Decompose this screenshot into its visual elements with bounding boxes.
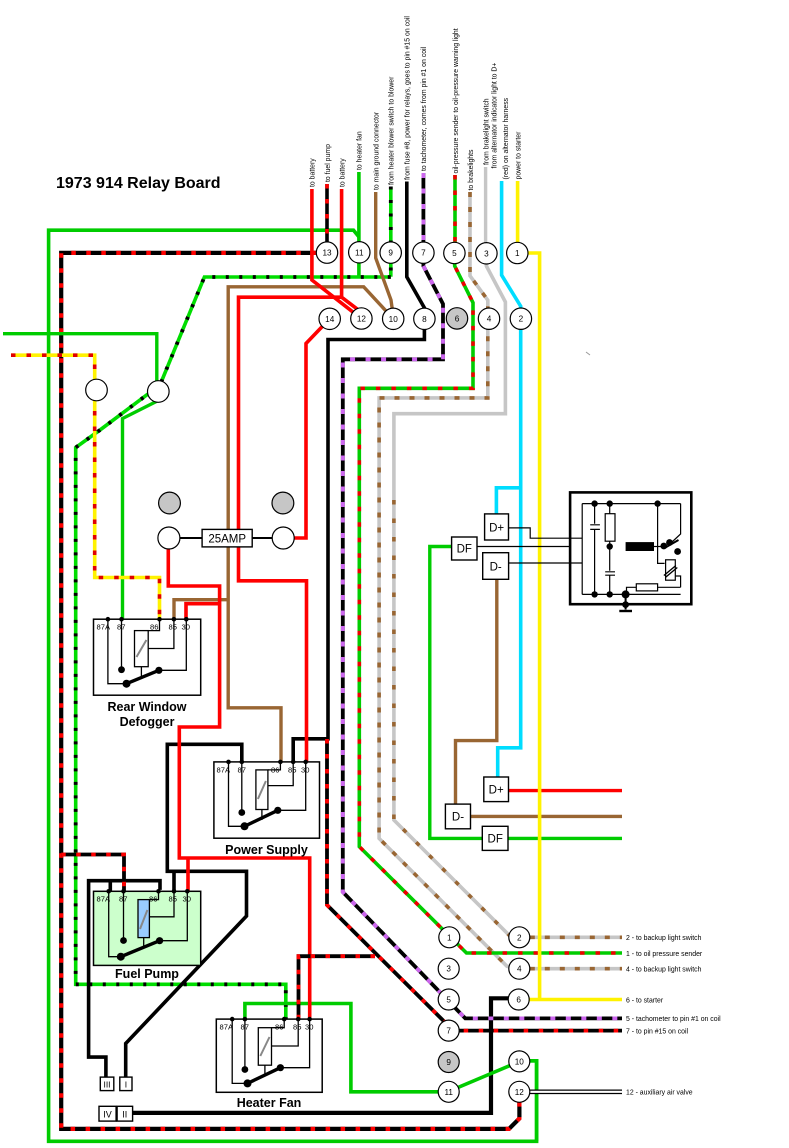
svg-text:2 - to backup light switch: 2 - to backup light switch	[626, 935, 702, 942]
svg-text:Defogger: Defogger	[120, 715, 175, 729]
relay Heater Fan	[216, 1017, 322, 1110]
node bottom pin 11	[438, 1081, 459, 1102]
node bottom pin 6	[508, 989, 529, 1010]
svg-text:8: 8	[422, 315, 427, 324]
node pin 3	[476, 243, 497, 264]
svg-text:86: 86	[149, 895, 157, 904]
node bottom pin 9 gray	[438, 1052, 459, 1073]
node fuse holder circle left	[158, 527, 180, 549]
svg-text:85: 85	[288, 766, 296, 775]
wire black-red striped branch to heater fan pin 85	[299, 956, 376, 1019]
svg-text:D+: D+	[489, 785, 504, 797]
node fuse holder circle right	[272, 527, 294, 549]
svg-text:DF: DF	[488, 834, 503, 846]
svg-text:25AMP: 25AMP	[208, 534, 246, 546]
wire black DF upper stub into alternator mid rail	[477, 546, 626, 548]
wire red fuse right circle up to circle 14	[294, 319, 330, 538]
wire red lower D+ box east to edge	[509, 789, 623, 792]
node bottom pin 10	[509, 1051, 530, 1072]
svg-text:(red) on alternator harness: (red) on alternator harness	[503, 97, 510, 179]
svg-text:12: 12	[357, 315, 367, 324]
svg-text:to battery: to battery	[339, 158, 346, 187]
wire internal left rail	[581, 504, 583, 595]
CIRCLES-START	[86, 242, 532, 1103]
wire green jog circle B to defogger pin 87	[123, 401, 159, 620]
transistor Q1	[666, 560, 676, 580]
resistor R1 vertical	[605, 514, 615, 542]
svg-text:to battery: to battery	[310, 158, 317, 187]
wire red fuse left circle to defogger 30, power supply loop, fuel pump 30 stub, heater fan 30	[168, 548, 309, 1019]
terminal box D- lower	[445, 804, 470, 829]
node bottom pin 2	[509, 927, 530, 948]
svg-text:5: 5	[446, 996, 451, 1005]
relay Rear Window Defogger	[94, 617, 201, 729]
connector plug II	[117, 1106, 133, 1121]
wire yellow-red striped to defogger pin 86	[11, 355, 160, 619]
svg-text:87A: 87A	[220, 1023, 234, 1032]
svg-text:1 - to oil pressure sender: 1 - to oil pressure sender	[626, 951, 703, 958]
node pin 1	[507, 242, 528, 263]
svg-text:87: 87	[117, 623, 125, 632]
node pin 13	[316, 242, 337, 263]
node pin 8	[414, 308, 435, 329]
node bottom pin 7	[438, 1020, 459, 1041]
wire gray from brakelight switch label into top circle 3	[484, 167, 487, 245]
node contact dots	[660, 543, 667, 550]
wire red battery 2 with west branch and drop to power supply pin 30	[239, 189, 359, 762]
svg-text:11: 11	[355, 248, 364, 257]
svg-text:14: 14	[325, 315, 335, 324]
svg-text:9: 9	[388, 249, 393, 258]
svg-text:30: 30	[301, 766, 309, 775]
node bottom pin 5	[438, 989, 459, 1010]
svg-text:Power Supply: Power Supply	[225, 843, 308, 857]
svg-text:4: 4	[487, 315, 492, 324]
wire black fuse holder links to 25AMP box	[180, 537, 272, 539]
svg-text:IV: IV	[103, 1110, 112, 1120]
relay Fuel Pump	[94, 889, 201, 981]
wire black-red striped outer loop: top into circle 13, left vertical, bottom run to circle 12	[61, 253, 519, 1129]
svg-text:30: 30	[182, 623, 190, 632]
svg-text:D-: D-	[452, 812, 464, 824]
wire green to heater fan label into top circle 11 and stub to dashed row	[357, 172, 361, 277]
svg-text:I: I	[125, 1080, 127, 1090]
node junction dots top rail	[591, 500, 597, 506]
wire black D+ upper stub into alternator	[509, 528, 583, 538]
svg-text:to brakelights: to brakelights	[468, 149, 475, 191]
svg-text:87: 87	[241, 1023, 249, 1032]
svg-text:86: 86	[271, 766, 279, 775]
node pin 9	[380, 242, 401, 263]
wire black D- upper stub into alternator	[509, 562, 583, 564]
node circle B on green wire	[148, 381, 170, 403]
svg-text:to heater fan: to heater fan	[357, 131, 364, 170]
svg-text:12: 12	[515, 1088, 525, 1097]
svg-text:II: II	[122, 1110, 127, 1120]
wire green circle 10 east then south to bottom rail	[530, 1061, 537, 1142]
svg-text:1973 914 Relay Board: 1973 914 Relay Board	[56, 175, 221, 192]
svg-text:5 - tachometer to pin #1 on c: 5 - tachometer to pin #1 on coil	[626, 1016, 721, 1023]
svg-text:85: 85	[169, 623, 177, 632]
node pin 4	[478, 308, 499, 329]
wire coil to contact dots	[654, 546, 664, 548]
wire internal bottom rail	[582, 593, 680, 595]
wire cyan alternator indicator through circle 2 down to lower D+ box	[498, 181, 521, 778]
wire black-red striped branch to fuel pump pin 87	[61, 855, 124, 892]
wire green outer loop: top horizontal, left vertical, bottom horizontal up to circle 10	[49, 230, 537, 1141]
wire double line bottom circle 12 east to label 12	[530, 1090, 622, 1095]
wire black-purple striped tachometer circle 7 down bundle through bottom circle 5 east to label 5	[343, 173, 622, 1018]
svg-text:3: 3	[484, 249, 489, 258]
svg-text:4: 4	[517, 965, 522, 974]
node mount hole gray left	[159, 492, 181, 514]
terminal box DF lower	[482, 826, 508, 850]
wire black power supply pin 87 bridge south to fuel pump 85 stub and diagonal to plug I	[126, 744, 247, 1077]
wire green-red striped circle 5 down bundle through bottom circle 1 east to label 1	[359, 253, 622, 953]
svg-text:D-: D-	[490, 562, 502, 574]
wire transistor to resistor R2	[658, 576, 681, 587]
wire black-red striped to fuel pump label into circle 13	[325, 184, 329, 245]
wire green diagonal bottom circle 11 to circle 10	[452, 1063, 516, 1090]
svg-text:5: 5	[452, 249, 457, 258]
svg-text:86: 86	[275, 1023, 283, 1032]
pin number labels	[322, 248, 524, 1097]
node pin 11	[349, 242, 370, 263]
svg-text:30: 30	[305, 1023, 313, 1032]
svg-text:from heater blower switch to b: from heater blower switch to blower	[389, 76, 396, 185]
stray tick mark	[586, 352, 590, 355]
node junction dots bottom rail	[591, 591, 597, 597]
svg-text:1: 1	[447, 933, 452, 942]
svg-text:from alternator indicator ligh: from alternator indicator light to D+	[491, 63, 498, 169]
svg-text:D+: D+	[489, 523, 504, 535]
svg-text:86: 86	[150, 623, 158, 632]
wire black-red striped bundle below power supply diagonal through circle 7 east to label 7	[327, 739, 622, 1031]
wire green heater fan pin 87 loop to bottom circle 11	[245, 1004, 439, 1092]
wire cyan branch to upper D+ box	[496, 488, 520, 514]
wire brown lower D- box east to edge	[471, 815, 623, 818]
node mount hole gray right	[272, 492, 294, 514]
svg-text:87A: 87A	[97, 895, 111, 904]
svg-text:to fuel pump: to fuel pump	[325, 144, 332, 182]
svg-text:to main ground connector: to main ground connector	[374, 111, 381, 190]
svg-text:87A: 87A	[97, 623, 111, 632]
svg-text:to tachometer, comes from pin: to tachometer, comes from pin #1 on coil	[421, 46, 428, 171]
svg-text:oil-pressure sender to oil-pre: oil-pressure sender to oil-pressure warn…	[453, 28, 460, 173]
fuse 25AMP box	[202, 529, 252, 547]
svg-text:DF: DF	[457, 544, 472, 556]
svg-text:12 - auxiliary air valve: 12 - auxiliary air valve	[626, 1090, 693, 1097]
wire black bottom circle 6 west and down to plug II/IV row	[133, 998, 509, 1113]
svg-text:Fuel Pump: Fuel Pump	[115, 967, 179, 981]
node pin 7	[413, 242, 434, 263]
coil L1 filled	[626, 542, 654, 551]
svg-text:3: 3	[446, 965, 451, 974]
svg-text:6: 6	[455, 314, 460, 323]
terminal box D- upper	[483, 553, 509, 580]
wire black fuel pump 86 bridge south to plug III with 87A stub	[89, 881, 160, 1077]
capacitor C2	[605, 547, 615, 595]
connector plug IV	[99, 1106, 116, 1121]
wire brown horizontal branch into circle 10 and down to defogger 85 / power supply 86	[228, 287, 393, 762]
svg-text:4 - to backup light switch: 4 - to backup light switch	[626, 967, 702, 974]
wire green-red striped oil pressure label into circle 5	[453, 175, 457, 245]
wire internal right vertical from top rail	[658, 504, 665, 564]
WIRES-START	[3, 167, 622, 1141]
wire internal top rail	[582, 503, 680, 505]
svg-text:6: 6	[516, 996, 521, 1005]
wire yellow circle 1 east, long vertical, into circle 6 and east to label 6	[527, 253, 622, 1000]
svg-text:10: 10	[515, 1057, 525, 1066]
node bottom pin 12	[509, 1081, 530, 1102]
svg-text:85: 85	[169, 895, 177, 904]
wire gray circle 3 down bundle to bottom circle 2	[394, 253, 519, 937]
wire gray-brown bottom circle 2 east to label 2	[530, 935, 622, 939]
wire internal top-right corner drop to contacts	[672, 504, 681, 543]
wire brown upper D- box down to lower D- box	[456, 579, 497, 804]
svg-text:7: 7	[446, 1027, 451, 1036]
relay Power Supply	[214, 760, 320, 857]
ground symbol alternator	[622, 590, 630, 598]
terminal box D+ upper	[485, 514, 509, 540]
node pin 2	[510, 308, 531, 329]
svg-text:Heater Fan: Heater Fan	[237, 1096, 302, 1110]
capacitor C1	[590, 504, 600, 595]
wire green horizontal upper-left segment	[3, 334, 157, 381]
wire black from fuse 8 label via circle 8 down bundle to power supply pin 85	[293, 182, 424, 762]
wire internal stubs re-entering box	[570, 538, 582, 563]
svg-text:6 - to starter: 6 - to starter	[626, 997, 664, 1004]
wire green dashed from heater blower switch label into circle 9	[389, 187, 393, 277]
svg-text:9: 9	[446, 1058, 451, 1067]
node pin 6 gray	[446, 308, 467, 329]
svg-text:power to starter: power to starter	[515, 131, 522, 180]
wire green dashed row, big diagonal, left vertical, bottom run to heater fan pin 86	[76, 277, 391, 1019]
connector plug III	[100, 1077, 114, 1091]
svg-text:1: 1	[515, 249, 520, 258]
svg-text:2: 2	[519, 315, 524, 324]
wire gray-brown bottom circle 4 east to label 4	[530, 967, 622, 971]
terminal box DF upper	[452, 537, 477, 560]
node pin 10	[383, 308, 404, 329]
svg-text:87: 87	[119, 895, 127, 904]
svg-text:2: 2	[517, 933, 522, 942]
svg-text:13: 13	[322, 249, 332, 258]
svg-text:7: 7	[421, 249, 426, 258]
svg-text:Rear Window: Rear Window	[107, 700, 186, 714]
node bottom pin 1	[439, 927, 460, 948]
svg-text:III: III	[103, 1080, 110, 1090]
connector plug I	[120, 1077, 132, 1091]
svg-text:30: 30	[183, 895, 191, 904]
node bottom pin 3	[438, 958, 459, 979]
resistor R2 horizontal	[636, 584, 657, 591]
wire brown to main ground connector label diagonal into circle 10	[376, 192, 394, 316]
node junction dots mid	[607, 543, 613, 549]
node pin 5	[444, 242, 465, 263]
svg-text:from brakelight switch: from brakelight switch	[483, 98, 490, 165]
svg-text:85: 85	[293, 1023, 301, 1032]
svg-text:7 - to pin #15 on coil: 7 - to pin #15 on coil	[626, 1029, 689, 1036]
node bottom pin 4	[509, 958, 530, 979]
wire green alternator DF loop: upper DF box, long vertical, lower DF box, east to label	[430, 547, 483, 839]
svg-text:87A: 87A	[217, 766, 231, 775]
wire yellow power to starter into circle 1	[516, 181, 520, 245]
svg-text:11: 11	[444, 1088, 453, 1097]
wire gray-brown to brakelights label down bundle to bottom circle 4	[379, 192, 519, 969]
svg-text:87: 87	[238, 766, 246, 775]
node pin 12	[351, 308, 372, 329]
svg-text:10: 10	[389, 315, 399, 324]
node pin 14	[319, 308, 340, 329]
alternator voltage regulator box	[570, 492, 691, 611]
node circle A on yellow wire	[86, 379, 108, 401]
svg-text:from fuse #8, power for relays: from fuse #8, power for relays, goes to …	[405, 16, 412, 180]
terminal box D+ lower	[484, 777, 509, 802]
wire red battery 1 diagonal into circle 12	[312, 189, 353, 312]
